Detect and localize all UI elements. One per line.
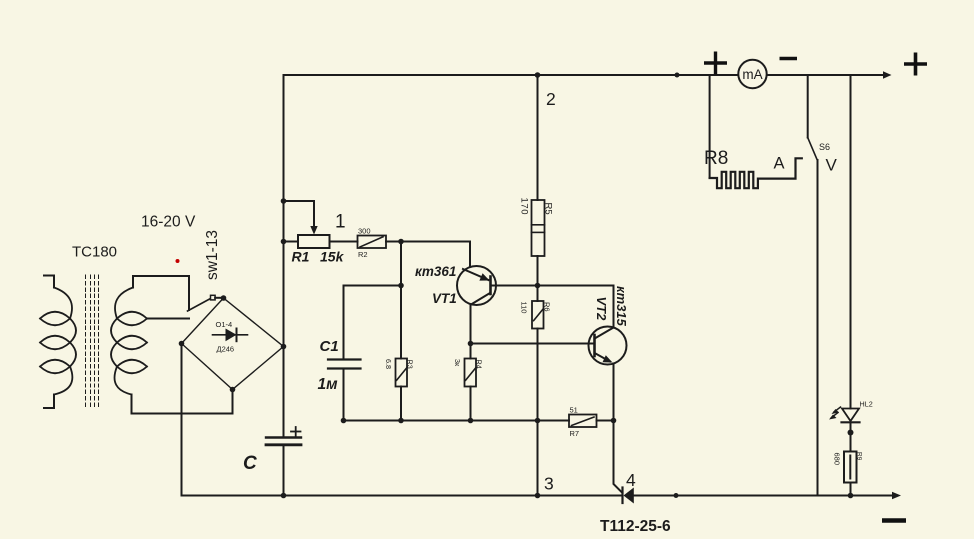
resistor R6 diagonal (534, 309, 544, 321)
svg-text:1м: 1м (318, 376, 339, 393)
arrow output minus terminal (892, 492, 901, 499)
transformer T1 core (86, 275, 99, 408)
transformer T1 primary loop 2 (40, 336, 70, 350)
wire R6 top lead (537, 286, 539, 302)
switch sw1-13 blade (188, 299, 211, 312)
transistor VT1 collector diagonal (471, 293, 490, 305)
wire bottom rail left of thyristor (182, 495, 623, 497)
svg-text:4: 4 (626, 470, 636, 490)
resistor R5 divider (532, 224, 545, 226)
wire top rail left segment (284, 74, 739, 76)
red dot mark (176, 259, 180, 263)
svg-text:2: 2 (546, 89, 556, 109)
transformer T1 primary loop 1 (40, 312, 70, 326)
svg-text:HL2: HL2 (860, 400, 873, 409)
svg-text:R4: R4 (475, 360, 484, 369)
svg-text:R5: R5 (543, 203, 554, 215)
node junction R6 bottom on rail (535, 418, 541, 424)
svg-text:R3: R3 (406, 360, 415, 369)
node bridge left corner (179, 341, 185, 347)
svg-text:T112-25-6: T112-25-6 (600, 518, 671, 535)
arrow output plus terminal (883, 71, 892, 79)
wire secondary tap (147, 318, 189, 320)
transistor VT1 circle (457, 266, 496, 305)
diode D1-4 lead line (213, 334, 248, 336)
wire R1 left lead (284, 241, 299, 243)
transistor VT2 emitter diagonal (596, 354, 611, 362)
wire R4 bottom lead (470, 387, 472, 421)
transistor VT2 emitter arrow (603, 355, 613, 362)
resistor R4 body (465, 359, 477, 387)
svg-text:VT2: VT2 (594, 297, 609, 322)
wire C1 bottom lead (343, 369, 345, 421)
LED HL2 light arrow 2 (832, 413, 839, 418)
svg-text:300: 300 (358, 227, 371, 236)
svg-text:3к: 3к (453, 359, 462, 367)
wire R4 top lead (470, 344, 472, 359)
svg-text:TC180: TC180 (72, 244, 117, 261)
svg-text:кт315: кт315 (614, 286, 629, 327)
wire bridge bottom corner down (232, 390, 234, 414)
capacitor C bottom plate (266, 443, 301, 446)
switch sw1-13 selected wire (188, 276, 190, 310)
wire R8 left lead (709, 75, 711, 178)
meter mA circle (738, 60, 766, 88)
wire LED branch from top rail (850, 75, 852, 409)
wire left rail below capacitor C (283, 446, 285, 496)
svg-text:кт361: кт361 (415, 264, 456, 279)
svg-text:51: 51 (570, 406, 578, 415)
node 2 junction on top rail (535, 72, 541, 78)
wire LED to R9 (850, 422, 852, 451)
wire VT1 collector to VT2 base (471, 343, 595, 345)
svg-text:VT1: VT1 (432, 291, 457, 306)
wire VT1 collector lead (470, 305, 472, 344)
wire R1 wiper branch (284, 201, 315, 227)
transistor VT2 base bar (593, 335, 596, 356)
minus symbol bottom right (882, 518, 906, 523)
resistor R5 body (532, 200, 545, 256)
wire R6 bottom lead to rail (537, 329, 539, 421)
node junction on bottom rail right of thyristor (674, 493, 679, 498)
node junction below LED (848, 430, 854, 436)
svg-text:680: 680 (833, 453, 842, 466)
transformer T1 primary loop 3 (40, 360, 70, 374)
wire rail node to bottom node 3 (537, 421, 539, 496)
resistor R9 body (844, 452, 857, 483)
resistor R1 potentiometer body (298, 235, 330, 248)
wire bottom rail right of thyristor (634, 495, 893, 497)
transformer T1 secondary winding arcs (111, 288, 133, 395)
wire R7 right lead (597, 420, 614, 422)
wire C1 top connection (344, 286, 402, 360)
plus symbol far right (904, 53, 927, 76)
transformer T1 primary top stub (44, 276, 54, 288)
thyristor VS1 cathode bar (621, 488, 623, 504)
wire left rail vertical (283, 75, 285, 437)
diode D1-4 triangle (226, 329, 237, 342)
capacitor C plus mark (291, 431, 301, 433)
node junction R3 bottom on rail (398, 418, 404, 424)
svg-text:3: 3 (544, 474, 554, 494)
node junction R4 bottom on rail (468, 418, 474, 424)
transistor VT1 emitter diagonal (463, 269, 489, 280)
resistor R8 shunt meander (710, 158, 802, 188)
resistor R7 body (569, 415, 597, 428)
transformer T1 secondary loop 3 (117, 360, 147, 374)
transistor VT1 base bar (489, 277, 492, 295)
resistor R2 diagonal (360, 237, 383, 247)
wire R9 bottom lead (850, 483, 852, 496)
wire VT2 emitter lead down (613, 364, 615, 421)
wire VT1 base to divider node (491, 285, 538, 287)
wire bridge left corner to bottom rail (181, 344, 183, 496)
node bridge bottom corner (230, 387, 236, 393)
LED HL2 triangle (842, 409, 859, 422)
node junction VT1 collector (468, 341, 474, 347)
svg-text:6.8: 6.8 (384, 359, 393, 369)
resistor R6 body (532, 301, 544, 329)
transformer T1 primary bottom stub (44, 395, 54, 409)
transformer T1 secondary top lead (133, 276, 189, 288)
svg-text:C: C (243, 453, 257, 474)
wire node 2 down to R5 (537, 75, 539, 200)
switch sw1-13 pole contact square (211, 295, 216, 300)
node junction R9 on bottom rail (848, 493, 854, 499)
svg-text:A: A (774, 155, 785, 173)
svg-text:R9: R9 (856, 452, 863, 461)
wire R2 right lead (386, 241, 401, 243)
switch S6 pole wire (807, 75, 809, 138)
svg-text:V: V (826, 156, 838, 175)
resistor R9 inner bar (849, 456, 851, 479)
svg-text:16-20 V: 16-20 V (141, 214, 196, 231)
switch S6 blade (808, 138, 817, 160)
svg-text:R8: R8 (704, 148, 728, 169)
transistor VT2 circle (589, 327, 627, 365)
wire R1 to R2 (330, 241, 358, 243)
LED HL2 cathode bar (842, 421, 860, 423)
wire switch to bridge top (215, 297, 223, 299)
resistor R2 body (358, 236, 387, 249)
svg-text:C1: C1 (320, 338, 339, 355)
svg-text:mA: mA (742, 67, 762, 82)
resistor R4 diagonal (466, 368, 476, 381)
node junction R1 left lead (281, 239, 287, 245)
wire VT2 collector from divider node (538, 286, 614, 328)
node bridge right corner (281, 344, 287, 350)
svg-text:R1: R1 (292, 249, 310, 265)
transformer T1 secondary loop 1 (117, 312, 147, 326)
node junction VT2 emitter R7 (611, 418, 617, 424)
svg-text:R2: R2 (358, 250, 368, 259)
wire R5 bottom lead (537, 256, 539, 286)
capacitor C1 top plate (328, 358, 361, 360)
transformer T1 secondary bottom lead (132, 395, 233, 414)
node junction base divider on R3 branch (398, 283, 404, 289)
svg-text:15k: 15k (320, 249, 345, 265)
capacitor C1 bottom plate (328, 367, 361, 369)
arrow R1 wiper (310, 226, 317, 235)
wire thyristor gate (614, 421, 622, 493)
thyristor VS1 triangle (624, 488, 634, 504)
minus symbol near meter (780, 57, 798, 60)
transistor VT2 collector diagonal (596, 328, 614, 339)
node junction top rail before meter (675, 73, 680, 78)
capacitor C top plate (266, 436, 301, 438)
plus symbol near meter (704, 52, 727, 75)
wire R2 node to VT1 emitter (401, 242, 470, 267)
transformer T1 secondary loop 2 (117, 336, 147, 350)
transformer T1 primary winding arcs (54, 288, 76, 395)
svg-text:R7: R7 (570, 429, 580, 438)
svg-text:170: 170 (519, 198, 530, 216)
svg-text:110: 110 (520, 302, 529, 314)
node 3 junction on bottom rail (535, 493, 541, 499)
node junction right of R2 (398, 239, 404, 245)
node junction R5 R6 VT1 base (535, 283, 541, 289)
wire top rail right segment (767, 74, 885, 76)
resistor R3 diagonal (397, 368, 407, 381)
resistor R7 diagonal (572, 417, 595, 426)
bridge rectifier diamond (182, 298, 284, 390)
transistor VT1 emitter arrow (479, 273, 489, 280)
svg-text:R6: R6 (543, 302, 552, 312)
node junction left rail capacitor bottom (281, 493, 287, 499)
node bridge top corner (221, 295, 227, 301)
wire bottom bias rail (344, 420, 570, 422)
node junction top of R1 wiper branch (281, 198, 287, 204)
svg-text:S6: S6 (819, 142, 830, 152)
diode D1-4 cathode bar (236, 329, 238, 342)
LED HL2 light arrow 1 (834, 407, 841, 412)
wire R3 bottom lead (400, 387, 402, 421)
wire R2 node down to R3 (400, 242, 402, 359)
svg-text:1: 1 (335, 212, 346, 233)
svg-text:sw1-13: sw1-13 (204, 230, 221, 280)
svg-text:Д246: Д246 (217, 345, 235, 354)
node junction C1 bottom on rail (341, 418, 347, 424)
wire voltmeter branch (817, 160, 819, 494)
svg-text:О1-4: О1-4 (216, 320, 233, 329)
resistor R3 body (396, 359, 408, 387)
